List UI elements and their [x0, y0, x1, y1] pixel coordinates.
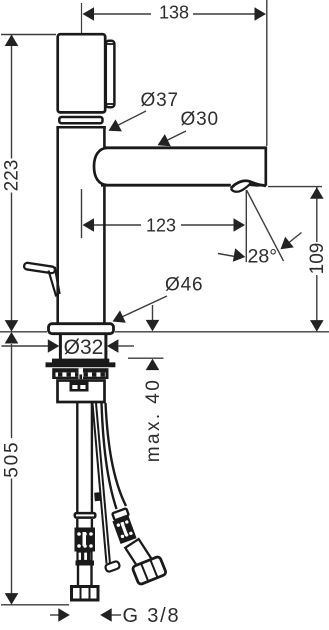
left hose tube bottom: [78, 566, 92, 586]
left hose end nut G3/8: [72, 586, 99, 600]
svg-text:G 3/8: G 3/8: [123, 605, 181, 627]
left hose ferrule: [75, 513, 96, 518]
svg-text:28°: 28°: [248, 246, 278, 268]
dimension 138 top: [83, 7, 267, 21]
handle body: [58, 34, 105, 112]
pull rod end knob: [105, 561, 121, 573]
centerline handle axis: [81, 3, 83, 39]
svg-text:Ø37: Ø37: [141, 90, 179, 111]
housing connector detail: [70, 381, 89, 392]
lever grip: [24, 262, 56, 273]
svg-text:Ø30: Ø30: [181, 109, 219, 130]
svg-text:max. 40: max. 40: [143, 378, 164, 462]
base escutcheon: [49, 324, 114, 334]
28 degree leader arrow sw-pointing: [281, 233, 302, 250]
pull rod clip: [94, 492, 100, 501]
threaded shank: [60, 335, 106, 359]
faucet body column: [56, 126, 105, 323]
right hose knurled connector: [112, 516, 136, 544]
serrated band: [52, 368, 108, 379]
right hose end nut: [132, 556, 167, 585]
svg-text:138: 138: [159, 2, 189, 22]
mounting nut dark band: [46, 359, 116, 368]
collar ring: [59, 117, 102, 123]
right supply hose upper curve: [102, 403, 127, 509]
left supply hose tube upper: [77, 403, 92, 512]
dimension max 40: [128, 305, 164, 370]
left hose lower section with ticks: [76, 552, 95, 566]
dimension 505 left: [1, 332, 69, 605]
28 degree slanted line: [247, 190, 284, 261]
spout: [94, 147, 267, 186]
extension line spout end: [266, 0, 268, 146]
valve housing box: [58, 381, 105, 403]
svg-text:Ø46: Ø46: [165, 275, 203, 296]
dimension 123: [82, 189, 246, 238]
pull rod: [93, 403, 111, 564]
aerator outlet: [231, 181, 266, 192]
right hose tube: [125, 539, 151, 568]
svg-text:505: 505: [2, 441, 23, 478]
left hose knurled connector: [75, 528, 96, 552]
dimension 109 right: [268, 187, 324, 332]
svg-text:109: 109: [307, 243, 328, 275]
svg-text:123: 123: [146, 216, 176, 236]
svg-text:Ø32: Ø32: [64, 336, 104, 359]
left hose tube mid: [77, 519, 92, 528]
handle side tab: [106, 41, 115, 108]
28 degree leader arrow right-pointing: [218, 248, 245, 261]
lever arm: [49, 267, 60, 297]
countertop line: [0, 331, 329, 333]
right hose ferrule: [112, 508, 129, 520]
svg-text:223: 223: [2, 160, 23, 192]
label diameter 32 with arrows: [2, 339, 135, 353]
outlet vertical extension: [245, 190, 247, 262]
dimension G 3/8: [50, 608, 121, 622]
dimension 223 left: [1, 35, 56, 332]
